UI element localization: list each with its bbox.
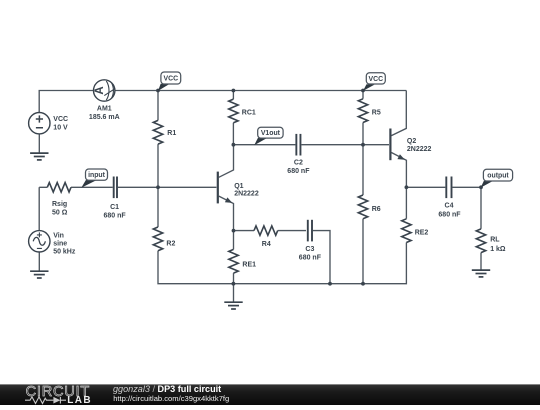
- svg-text:2N2222: 2N2222: [234, 191, 259, 198]
- svg-text:VCC: VCC: [369, 76, 384, 83]
- svg-text:LAB: LAB: [67, 395, 92, 405]
- svg-text:ggonzal3 / DP3 full circuit: ggonzal3 / DP3 full circuit: [113, 384, 221, 394]
- svg-text:RC1: RC1: [242, 109, 256, 116]
- svg-text:680 nF: 680 nF: [104, 212, 127, 219]
- svg-text:R1: R1: [167, 130, 176, 137]
- svg-text:Vin: Vin: [53, 232, 64, 239]
- svg-text:RL: RL: [490, 237, 500, 244]
- svg-text:R2: R2: [166, 241, 175, 248]
- svg-text:V1out: V1out: [261, 130, 281, 137]
- svg-text:C2: C2: [294, 160, 303, 167]
- svg-text:185.6 mA: 185.6 mA: [89, 114, 120, 121]
- svg-text:sine: sine: [53, 240, 67, 247]
- svg-text:http://circuitlab.com/c39gx4kk: http://circuitlab.com/c39gx4kktk7fg: [113, 394, 229, 403]
- svg-text:R6: R6: [372, 206, 381, 213]
- svg-text:50 Ω: 50 Ω: [52, 210, 68, 217]
- svg-text:680 nF: 680 nF: [287, 168, 310, 175]
- svg-text:RE2: RE2: [415, 229, 429, 236]
- svg-text:input: input: [88, 172, 106, 179]
- svg-text:R4: R4: [262, 241, 271, 248]
- svg-text:RE1: RE1: [242, 261, 256, 268]
- svg-text:10 V: 10 V: [53, 124, 68, 131]
- svg-text:AM1: AM1: [97, 106, 112, 113]
- svg-text:Rsig: Rsig: [52, 201, 67, 208]
- svg-text:C4: C4: [445, 203, 454, 210]
- svg-text:680 nF: 680 nF: [438, 212, 461, 219]
- svg-text:C3: C3: [305, 246, 314, 253]
- svg-text:C1: C1: [110, 204, 119, 211]
- svg-text:Q1: Q1: [234, 183, 243, 190]
- svg-text:680 nF: 680 nF: [299, 254, 322, 261]
- svg-text:1 kΩ: 1 kΩ: [490, 246, 506, 253]
- svg-text:output: output: [487, 173, 509, 180]
- svg-text:R5: R5: [372, 110, 381, 117]
- svg-text:VCC: VCC: [164, 76, 179, 83]
- svg-text:Q2: Q2: [407, 138, 416, 145]
- svg-text:A: A: [94, 86, 106, 94]
- svg-text:2N2222: 2N2222: [407, 146, 432, 153]
- svg-text:50 kHz: 50 kHz: [53, 249, 76, 256]
- svg-text:VCC: VCC: [53, 116, 68, 123]
